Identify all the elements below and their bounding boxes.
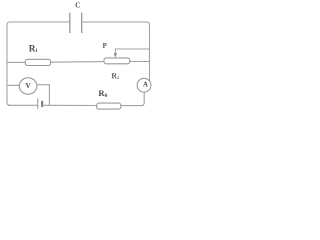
svg-text:A: A bbox=[143, 82, 148, 89]
wire: left rail to voltmeter bbox=[7, 84, 19, 86]
wire: middle row, left rail to R1 bbox=[7, 61, 25, 63]
wire: bottom-left, left rail to battery long plate bbox=[8, 104, 38, 106]
svg-text:V: V bbox=[25, 81, 31, 90]
voltmeter V (circle) bbox=[19, 78, 37, 94]
wire: middle row, R2 right end to right rail bbox=[130, 61, 150, 63]
wire: battery to resistor R0 bbox=[42, 104, 96, 106]
wire: wiper connection from arrow up and right to right rail bbox=[115, 49, 149, 54]
svg-text:P: P bbox=[103, 42, 108, 50]
resistor R0 bbox=[97, 103, 121, 109]
wire: R0 to bottom-right corner and up to ammeter bbox=[121, 92, 144, 106]
wire: right rail (top-right corner down to ammeter) bbox=[147, 22, 150, 81]
wire: voltmeter right side down to battery row bbox=[37, 85, 50, 106]
ammeter A (circle) bbox=[137, 78, 151, 92]
capacitor C right plate bbox=[81, 13, 83, 33]
wiper arrowhead of potentiometer P bbox=[114, 53, 117, 57]
resistor R1 bbox=[25, 59, 50, 65]
battery negative plate (short thick) bbox=[41, 101, 43, 107]
wire: middle row, R1 to potentiometer R2 bbox=[51, 61, 104, 64]
wire: top side, left rail to capacitor left plate bbox=[9, 21, 70, 23]
svg-text:C: C bbox=[75, 1, 80, 10]
wire: top side, capacitor right plate to right rail bbox=[82, 21, 148, 23]
battery positive plate (long) bbox=[37, 98, 39, 109]
potentiometer R2 (slider resistor box) bbox=[104, 58, 130, 64]
wire: left rail (top-left corner to bottom-left corner) bbox=[7, 22, 10, 105]
capacitor C left plate bbox=[69, 13, 71, 33]
